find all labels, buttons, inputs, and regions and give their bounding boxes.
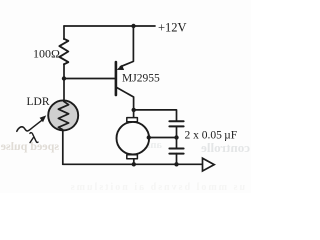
svg-text:LDR: LDR	[27, 96, 50, 108]
svg-text:2 x 0.05 µF: 2 x 0.05 µF	[185, 129, 238, 141]
svg-text:MJ2955: MJ2955	[122, 73, 160, 85]
svg-text:+12V: +12V	[158, 21, 187, 35]
svg-text:100Ω: 100Ω	[33, 47, 60, 61]
svg-text:us mmol bsvnsb ai noitslums: us mmol bsvnsb ai noitslums	[69, 182, 245, 193]
svg-text:controlle: controlle	[201, 140, 250, 155]
svg-text:speed pulse: speed pulse	[0, 139, 59, 153]
